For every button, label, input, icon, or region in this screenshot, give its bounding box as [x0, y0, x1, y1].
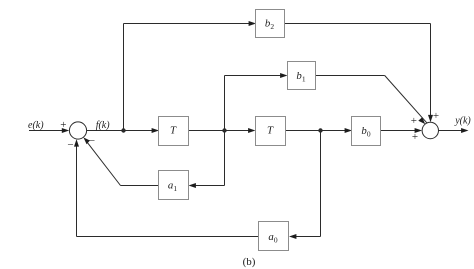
svg-text:e(k): e(k) — [28, 120, 44, 131]
svg-text:y(k): y(k) — [454, 116, 471, 127]
svg-text:+: + — [411, 115, 417, 127]
svg-text:+: + — [412, 131, 418, 143]
svg-text:f(k): f(k) — [96, 120, 111, 131]
svg-text:−: − — [89, 135, 95, 147]
svg-text:+: + — [433, 110, 439, 122]
svg-text:T: T — [267, 125, 274, 137]
svg-text:+: + — [60, 119, 66, 131]
svg-text:(b): (b) — [243, 256, 256, 268]
svg-text:−: − — [67, 139, 73, 151]
svg-text:T: T — [170, 125, 177, 137]
